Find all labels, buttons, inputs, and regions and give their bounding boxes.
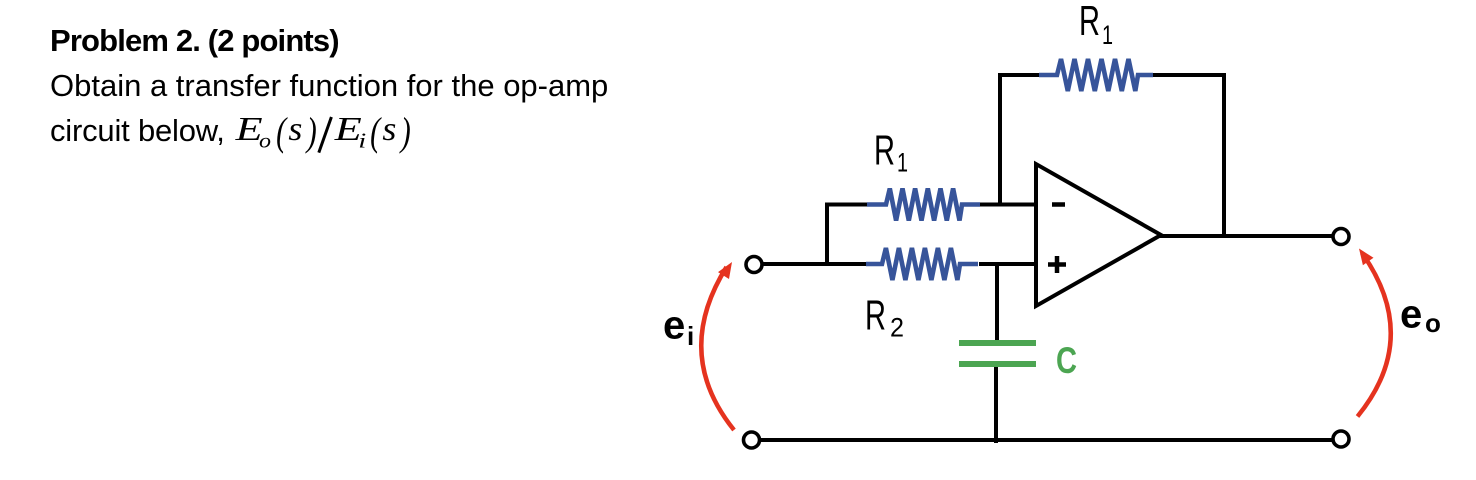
svg-text:o: o: [1425, 308, 1441, 338]
svg-text:R: R: [865, 292, 886, 339]
svg-text:): ): [305, 109, 317, 154]
svg-text:1: 1: [897, 148, 908, 178]
svg-text:R: R: [874, 127, 895, 174]
svg-text:i: i: [358, 129, 366, 153]
svg-text:e: e: [663, 304, 685, 348]
svg-text:i: i: [687, 321, 694, 351]
svg-text:1: 1: [1102, 20, 1113, 50]
svg-text:C: C: [1056, 340, 1077, 381]
svg-text:2: 2: [890, 313, 904, 343]
svg-text:(: (: [276, 109, 288, 154]
svg-text:R: R: [1079, 0, 1100, 44]
svg-text:o: o: [259, 129, 271, 153]
svg-text:): ): [399, 109, 411, 154]
svg-text:s: s: [382, 111, 396, 148]
svg-text:(: (: [370, 109, 382, 154]
svg-text:e: e: [1400, 293, 1422, 337]
svg-text:s: s: [288, 111, 302, 148]
